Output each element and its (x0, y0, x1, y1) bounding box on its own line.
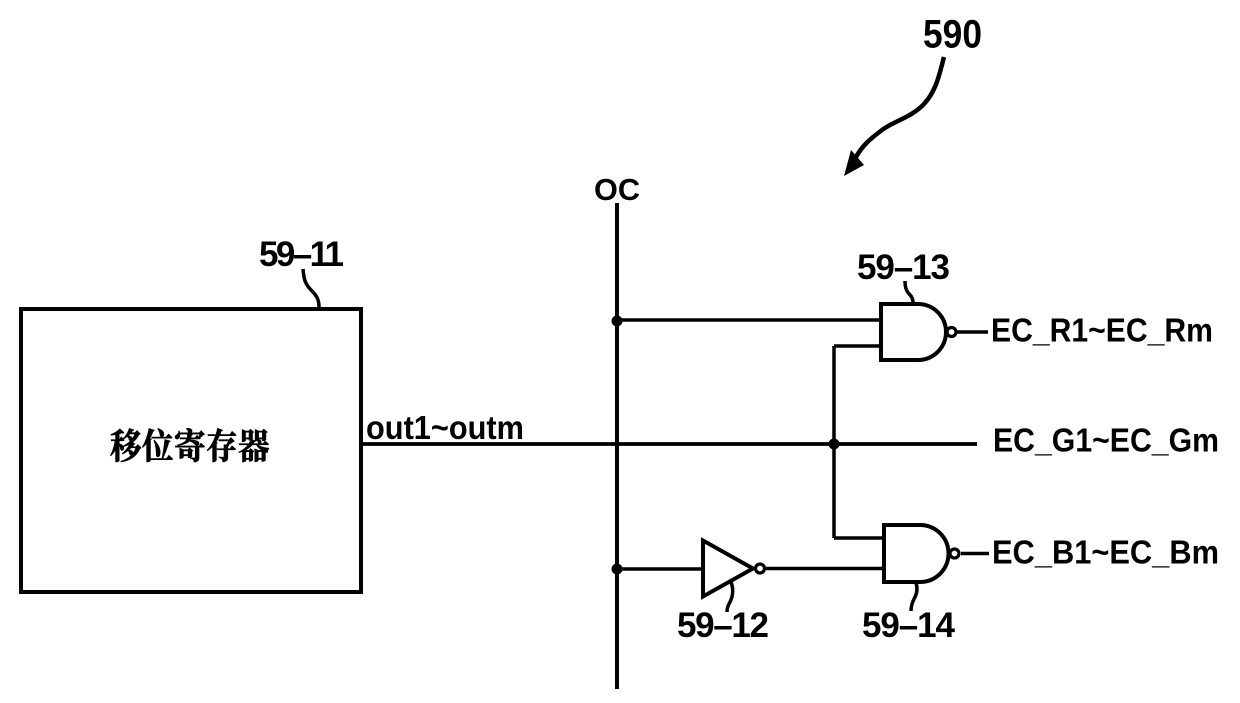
svg-text:59–11: 59–11 (259, 235, 344, 274)
inverter 59-12 triangle (703, 541, 753, 597)
NAND gate 59-14 body (884, 525, 949, 582)
inverter 59-12 output bubble (756, 564, 765, 573)
junction dot on OC at inverter input (612, 564, 623, 575)
leader line for 59-14 (911, 583, 917, 611)
junction dot on EC_G bus (829, 439, 840, 450)
junction dot on OC at top NAND input (612, 316, 623, 327)
wire OC to NAND 59-13 upper input (617, 318, 882, 322)
svg-text:EC_G1~EC_Gm: EC_G1~EC_Gm (993, 422, 1219, 459)
wire NAND 59-13 lower input (834, 344, 882, 348)
shift register block 59-11 (21, 309, 361, 592)
wire NAND 59-14 upper input (834, 536, 886, 540)
svg-text:EC_B1~EC_Bm: EC_B1~EC_Bm (992, 534, 1219, 571)
net OC vertical wire (615, 203, 619, 689)
NAND gate 59-14 output bubble (950, 549, 959, 558)
wire OC to inverter 59-12 input (617, 567, 703, 571)
svg-text:EC_R1~EC_Rm: EC_R1~EC_Rm (991, 312, 1213, 349)
NAND gate 59-13 output bubble (947, 328, 956, 337)
svg-text:590: 590 (923, 13, 982, 57)
leader line for 59-12 (727, 582, 733, 612)
svg-text:59–14: 59–14 (862, 606, 956, 645)
svg-text:out1~outm: out1~outm (366, 409, 524, 446)
wire NAND 59-14 output (961, 552, 989, 556)
wire out1~outm / EC_G bus (361, 442, 977, 446)
arrow from 590 to circuit (844, 57, 944, 176)
vertical wire between gates on EC_G node (832, 346, 836, 538)
svg-text:OC: OC (594, 172, 640, 207)
wire NAND 59-13 output (957, 330, 988, 334)
leader line for 59-11 (303, 269, 319, 307)
leader line for 59-13 (905, 281, 913, 305)
wire inverter output to NAND 59-14 lower input (766, 567, 886, 571)
svg-text:59–12: 59–12 (677, 606, 769, 645)
NAND gate 59-13 body (881, 304, 946, 360)
shift register label text 移位寄存器 (111, 428, 269, 462)
